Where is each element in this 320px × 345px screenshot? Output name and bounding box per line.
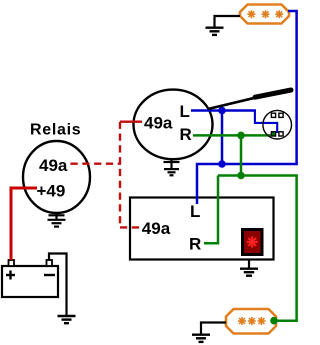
svg-text:Relais: Relais <box>30 122 81 139</box>
svg-text:49a: 49a <box>142 219 171 238</box>
svg-text:L: L <box>190 202 200 221</box>
svg-text:49a: 49a <box>39 156 68 175</box>
svg-text:L: L <box>180 102 190 121</box>
svg-text:R: R <box>189 234 201 253</box>
svg-text:49a: 49a <box>144 114 173 133</box>
svg-text:+49: +49 <box>37 182 66 201</box>
svg-text:R: R <box>180 125 192 144</box>
